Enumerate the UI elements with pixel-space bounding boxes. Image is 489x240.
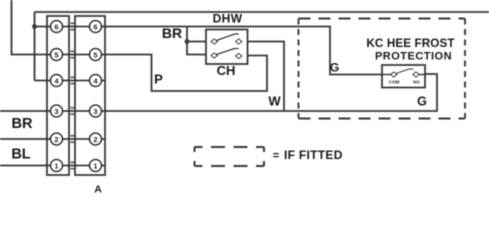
svg-text:G: G <box>330 61 339 75</box>
wire vertical drop x=34.5 from top bus to row3 <box>34 12 36 81</box>
terminal 2 right <box>90 133 102 145</box>
switch contact upper right <box>236 39 242 44</box>
switch blade lower <box>217 49 239 55</box>
dashed enclosure frost protection <box>299 19 466 119</box>
terminal 3 right <box>90 105 102 117</box>
svg-text:1: 1 <box>54 161 58 170</box>
terminal block column box left <box>47 16 69 175</box>
terminal link ticks row5 <box>71 136 75 142</box>
terminal 3 left <box>51 105 63 117</box>
svg-text:5: 5 <box>54 50 58 59</box>
switch contact lower left <box>211 53 217 58</box>
terminal 6 right <box>90 21 102 33</box>
junction dot row1 <box>32 24 37 29</box>
terminal link ticks row1 <box>71 23 75 29</box>
wire row2 terminal 5 P-loop to CH switch <box>12 0 268 91</box>
switch contact lower right <box>236 53 242 58</box>
svg-text:BL: BL <box>11 147 30 163</box>
svg-text:6: 6 <box>93 22 97 31</box>
wire branch to CH switch upper pole <box>187 41 206 43</box>
frost stat blade <box>396 69 414 74</box>
switch box DHW/CH <box>206 30 248 65</box>
svg-text:NO: NO <box>413 80 420 85</box>
terminal block column box right <box>75 16 105 175</box>
junction dot BR riser <box>185 39 190 44</box>
svg-text:3: 3 <box>54 107 58 116</box>
terminal 5 left <box>51 49 63 61</box>
terminal link ticks row4 <box>71 108 75 114</box>
wire BR riser x=187 <box>187 27 206 55</box>
wire row3 terminal 4 stub <box>35 80 106 82</box>
terminal link ticks row6 <box>71 162 75 168</box>
terminal 4 right <box>90 75 102 87</box>
svg-text:DHW: DHW <box>213 12 243 26</box>
legend dashed rectangle <box>195 147 265 166</box>
svg-text:CH: CH <box>217 63 236 78</box>
terminal link ticks row2 <box>71 51 75 57</box>
svg-text:6: 6 <box>54 22 58 31</box>
terminal 6 left <box>51 21 63 33</box>
frost stat wire stubs <box>382 74 425 76</box>
svg-text:BR: BR <box>162 25 182 41</box>
svg-text:2: 2 <box>93 135 97 144</box>
svg-text:PROTECTION: PROTECTION <box>375 51 452 63</box>
svg-text:=: = <box>273 150 279 162</box>
switch contact upper left <box>211 39 217 44</box>
svg-text:A: A <box>94 184 102 196</box>
svg-text:COM: COM <box>389 80 400 85</box>
wire top bus y=12 <box>35 11 489 13</box>
svg-text:KC HEE FROST: KC HEE FROST <box>366 37 455 50</box>
svg-text:W: W <box>268 94 281 109</box>
terminal 2 left <box>51 133 63 145</box>
svg-text:BR: BR <box>12 116 33 132</box>
frost stat contact COM <box>391 72 397 77</box>
svg-text:1: 1 <box>93 161 97 170</box>
terminal 1 right <box>90 160 102 172</box>
svg-text:IF FITTED: IF FITTED <box>284 148 343 162</box>
svg-text:3: 3 <box>93 107 97 116</box>
switch blade upper <box>217 34 239 41</box>
terminal 5 right <box>90 49 102 61</box>
svg-text:P: P <box>154 72 163 87</box>
svg-text:5: 5 <box>93 50 97 59</box>
wire row5 terminal 2 <box>0 138 105 140</box>
frost stat box <box>382 65 425 88</box>
frost stat contact NO <box>413 72 419 77</box>
wire row4 terminal 3 long line to frost-protection return <box>0 74 437 111</box>
terminal link ticks row3 <box>71 77 75 83</box>
terminal 4 left <box>51 75 63 87</box>
svg-text:2: 2 <box>54 135 58 144</box>
terminal 1 left <box>51 160 63 172</box>
wire CH switch upper output to W node <box>248 42 285 112</box>
svg-text:G: G <box>417 95 427 109</box>
wire row6 terminal 1 <box>0 165 105 167</box>
wire row1 terminal 6 to frost-protection feed <box>35 27 383 75</box>
